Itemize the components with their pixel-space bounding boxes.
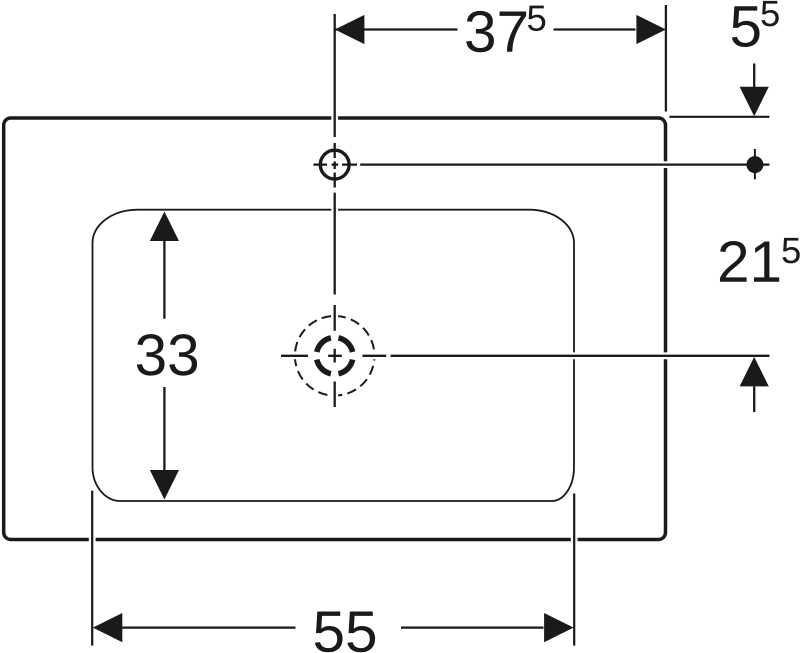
dimension 55: left arrow [93, 613, 123, 642]
dimension 55: right arrow [544, 613, 574, 642]
dimension 21.5: up arrow at drain level [740, 357, 769, 387]
dimension 37.5: right arrow [636, 15, 666, 44]
label 5.5: main digit 5 [732, 6, 760, 47]
label 21.5: main digits 21 [720, 241, 779, 282]
label 33 [137, 334, 197, 375]
label 37.5: main digits 37 [466, 11, 526, 52]
dimension 5.5: extension of top edge [669, 116, 769, 118]
drain ring arcs [317, 338, 353, 374]
dimension 37.5: dimension line [336, 28, 636, 30]
dimension 37.5: extension line at right edge [665, 5, 667, 112]
dimension 55: extension lines [92, 491, 574, 646]
dimension 33: up arrow [150, 212, 179, 242]
vertical centerline through tap hole and drain [334, 14, 336, 407]
dimension 33: down arrow [150, 470, 179, 500]
tap hole circle [320, 150, 349, 179]
dimension 33: dimension line [163, 240, 165, 472]
label 5.5: superscript 5 [761, 1, 778, 26]
drain horizontal centerline + line to right arrow [281, 355, 769, 357]
label 37.5: superscript 5 [528, 6, 545, 31]
dimension 21.5: reference dot at tap level [754, 149, 756, 179]
dimension 37.5: left arrow [335, 15, 365, 44]
washbasin outer outline [4, 118, 666, 540]
basin bowl inner outline [93, 210, 575, 501]
dimension 5.5: leader + down arrow at top right [753, 64, 755, 88]
dimension 55: dimension line [95, 626, 544, 628]
drain dashed circle [295, 316, 375, 396]
label 55 [315, 611, 375, 652]
label 21.5: superscript 5 [782, 238, 799, 263]
tap hole horizontal centerline + line to right reference dot [313, 163, 769, 165]
